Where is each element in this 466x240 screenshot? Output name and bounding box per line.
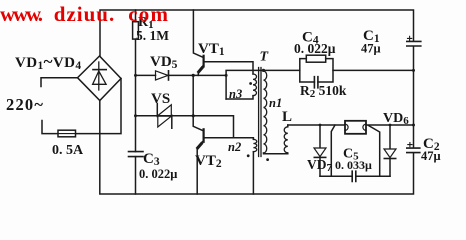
svg-text:VD1~VD4: VD1~VD4: [15, 52, 82, 72]
svg-text:www.dziuu.com: www.dziuu.com: [0, 2, 169, 26]
svg-text:L: L: [282, 109, 292, 125]
svg-text:47μ: 47μ: [421, 149, 441, 163]
svg-text:T: T: [260, 50, 270, 65]
svg-text:47μ: 47μ: [361, 42, 381, 56]
svg-text:0. 022μ: 0. 022μ: [139, 167, 177, 181]
svg-text:n2: n2: [228, 140, 241, 154]
svg-text:0. 022μ: 0. 022μ: [294, 41, 336, 56]
svg-text:n1: n1: [269, 96, 282, 110]
svg-text:0. 033μ: 0. 033μ: [335, 158, 372, 172]
svg-text:n3: n3: [229, 87, 242, 101]
svg-text:VS: VS: [151, 91, 170, 107]
svg-text:220~: 220~: [6, 95, 44, 114]
svg-text:R2 510k: R2 510k: [300, 83, 347, 100]
svg-text:0. 5A: 0. 5A: [52, 143, 84, 158]
svg-text:5. 1M: 5. 1M: [136, 28, 169, 43]
